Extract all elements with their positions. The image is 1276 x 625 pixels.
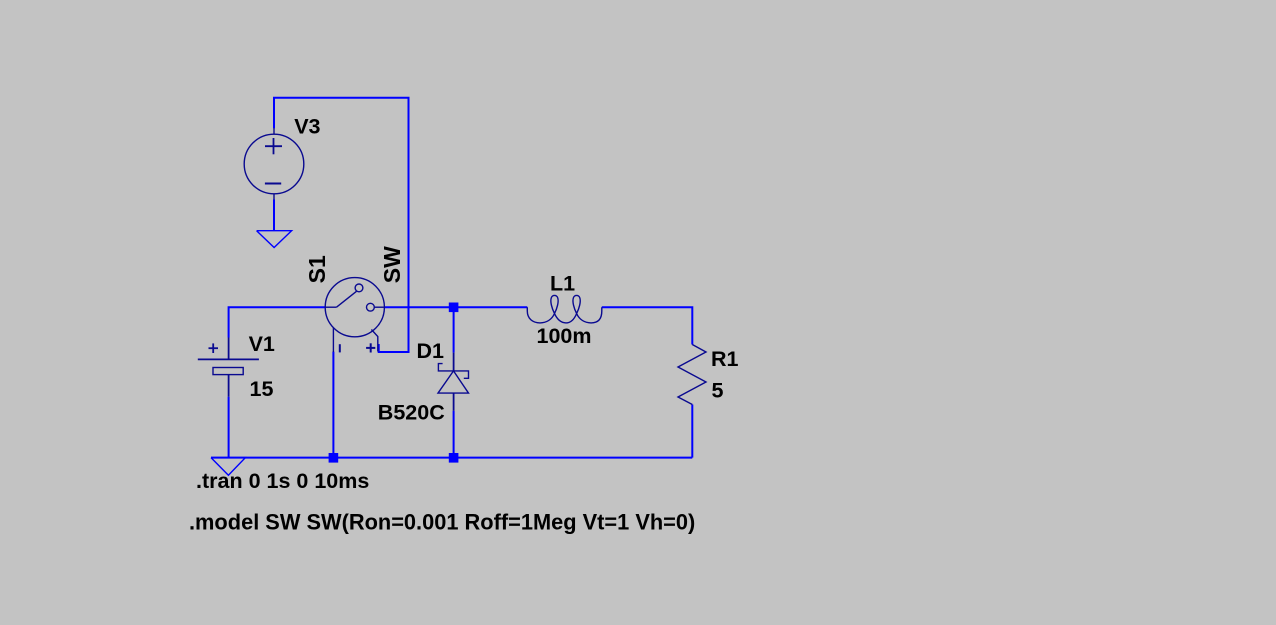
svg-text:.tran 0 1s 0 10ms: .tran 0 1s 0 10ms — [196, 469, 369, 493]
svg-text:D1: D1 — [417, 339, 445, 363]
wire R1 bottom to rail — [691, 405, 693, 458]
resistor R1 (symbol) — [678, 345, 706, 405]
svg-text:100m: 100m — [537, 324, 592, 348]
minus mark of S1 — [339, 344, 341, 352]
svg-text:5: 5 — [712, 379, 724, 403]
svg-text:SW: SW — [379, 246, 405, 283]
battery V1 (symbol) — [198, 338, 259, 397]
wire V3 bottom to ground — [273, 200, 275, 231]
svg-text:L1: L1 — [550, 272, 575, 296]
node junction at D1 bottom — [449, 453, 459, 463]
svg-text:R1: R1 — [711, 347, 739, 371]
svg-text:V1: V1 — [249, 332, 275, 356]
plus mark of S1 — [366, 347, 375, 349]
node junction at switch output / D1 top — [449, 303, 459, 313]
wire bottom rail — [211, 457, 692, 459]
wire switch right to inductor — [384, 306, 527, 308]
ground V3 — [257, 231, 292, 248]
wire switch left lead to rail — [332, 352, 334, 458]
svg-text:15: 15 — [250, 377, 274, 401]
svg-text:V3: V3 — [294, 115, 320, 139]
wire D1 branch lower — [453, 411, 455, 458]
voltage source V3 (symbol) — [244, 128, 304, 200]
wire main left (battery top to switch) — [229, 307, 326, 337]
svg-text:B520C: B520C — [378, 401, 445, 425]
svg-text:.model SW SW(Ron=0.001 Roff=1M: .model SW SW(Ron=0.001 Roff=1Meg Vt=1 Vh… — [189, 510, 695, 535]
node junction at switch left lead / rail — [329, 453, 339, 463]
inductor L1 (symbol) — [527, 295, 602, 322]
diode D1 (schottky, symbol) — [438, 353, 469, 411]
svg-text:S1: S1 — [304, 255, 330, 283]
ground V1 — [211, 458, 245, 476]
wire inductor to R1 top — [602, 307, 693, 344]
switch S1 (symbol) — [325, 278, 384, 353]
wire battery bottom to rail — [228, 397, 230, 458]
wire D1 branch upper — [453, 307, 455, 352]
wire V3 top loop — [274, 98, 409, 352]
